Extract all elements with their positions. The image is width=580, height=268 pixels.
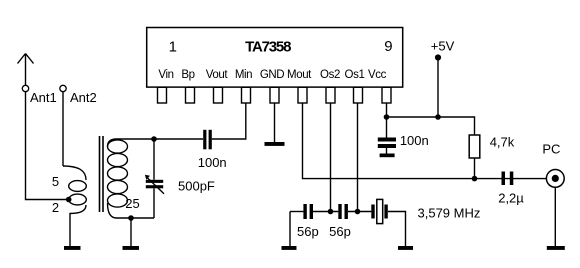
terminal Ant2 xyxy=(60,85,66,91)
pin 7 Os2 xyxy=(326,87,335,103)
wire pin8 Os1 down xyxy=(357,103,359,212)
junction +5V rail xyxy=(435,114,441,120)
capacitor 100n decoupling xyxy=(378,117,396,154)
svg-text:Vout: Vout xyxy=(206,69,229,81)
wire pin5 GND down xyxy=(274,103,276,142)
svg-text:Bp: Bp xyxy=(181,69,194,81)
capacitor 56p second xyxy=(338,204,348,219)
wire Ant1 to coil tap xyxy=(26,92,67,200)
capacitor 100n coupling xyxy=(203,130,212,150)
wire rail to cap 56p first xyxy=(290,211,303,213)
svg-text:Ant1: Ant1 xyxy=(30,90,57,105)
junction coil tap xyxy=(66,197,72,203)
junction Os2 node xyxy=(328,209,334,215)
junction Vcc node xyxy=(384,114,390,120)
svg-text:Vcc: Vcc xyxy=(368,69,387,81)
variable capacitor 500pF xyxy=(145,139,164,218)
ground oscillator left xyxy=(282,246,297,250)
junction Os1 node xyxy=(355,209,361,215)
svg-text:500pF: 500pF xyxy=(178,179,215,194)
ground pin5 xyxy=(265,142,285,146)
ground primary xyxy=(64,246,81,250)
svg-text:2,2µ: 2,2µ xyxy=(498,191,524,206)
ground decoupling cap xyxy=(380,154,395,158)
pin 4 Min xyxy=(242,87,251,103)
pin 1 Vin xyxy=(158,87,167,103)
terminal +5V xyxy=(435,54,441,60)
pin 8 Os1 xyxy=(354,87,363,103)
svg-text:Min: Min xyxy=(235,69,252,81)
connector PC jack xyxy=(546,170,564,188)
svg-text:Os1: Os1 xyxy=(345,69,365,81)
transformer T1 core xyxy=(100,136,104,212)
svg-text:9: 9 xyxy=(384,38,392,55)
svg-text:56p: 56p xyxy=(329,224,351,239)
svg-text:25: 25 xyxy=(125,196,139,211)
op-amp U1 TA7358 body xyxy=(147,28,403,88)
pin 6 Mout xyxy=(298,87,307,103)
wire Ant2 to coil top xyxy=(62,92,64,166)
junction top rail xyxy=(151,136,157,142)
svg-text:1: 1 xyxy=(169,39,177,56)
svg-text:5: 5 xyxy=(52,174,59,189)
transformer T1 secondary winding xyxy=(108,139,128,218)
wire cap to crystal xyxy=(348,211,371,213)
ground secondary xyxy=(123,218,140,250)
ground crystal xyxy=(398,246,413,250)
crystal X1 3,579 MHz xyxy=(371,199,388,223)
pin 5 GND xyxy=(270,87,279,103)
svg-text:2: 2 xyxy=(52,200,59,215)
svg-text:Os2: Os2 xyxy=(320,69,340,81)
wire resistor to rail xyxy=(474,158,476,179)
wire cap to pin4 Min xyxy=(212,103,246,139)
svg-text:3,579 MHz: 3,579 MHz xyxy=(418,206,481,221)
ground PC xyxy=(547,246,565,250)
svg-text:GND: GND xyxy=(260,69,284,81)
wire between 56p caps xyxy=(313,211,338,213)
wire PC jack down xyxy=(554,187,556,246)
junction output rail xyxy=(472,176,478,182)
svg-text:Vin: Vin xyxy=(158,69,173,81)
wire Vcc rail to resistor xyxy=(387,117,475,135)
wire crystal right drop xyxy=(388,212,406,247)
svg-text:PC: PC xyxy=(542,142,560,157)
svg-text:100n: 100n xyxy=(198,155,227,170)
svg-text:TA7358: TA7358 xyxy=(245,39,291,56)
resistor 4,7k xyxy=(469,135,480,158)
svg-text:Ant2: Ant2 xyxy=(70,90,97,105)
wire pin6 Mout to output rail xyxy=(303,103,547,179)
wire pin7 Os2 down xyxy=(330,103,332,212)
capacitor 56p first xyxy=(303,204,313,219)
svg-text:4,7k: 4,7k xyxy=(490,135,515,150)
pin 2 Bp xyxy=(186,87,195,103)
antenna arrow xyxy=(18,54,34,86)
svg-text:56p: 56p xyxy=(297,224,319,239)
transformer T1 primary winding xyxy=(63,166,86,246)
wire pin9 Vcc down xyxy=(386,103,388,117)
pin 3 Vout xyxy=(214,87,223,103)
wire oscillator rail left drop xyxy=(289,212,291,247)
svg-text:+5V: +5V xyxy=(431,39,455,54)
pin 9 Vcc xyxy=(382,87,391,103)
svg-text:100n: 100n xyxy=(400,133,429,148)
terminal Ant1 xyxy=(22,85,28,91)
wire +5V down xyxy=(437,60,439,117)
junction bottom rail xyxy=(128,215,134,221)
wire secondary bottom rail xyxy=(116,217,154,219)
svg-text:Mout: Mout xyxy=(287,69,312,81)
capacitor 2,2u output xyxy=(502,172,514,186)
wire secondary top rail xyxy=(116,138,204,140)
